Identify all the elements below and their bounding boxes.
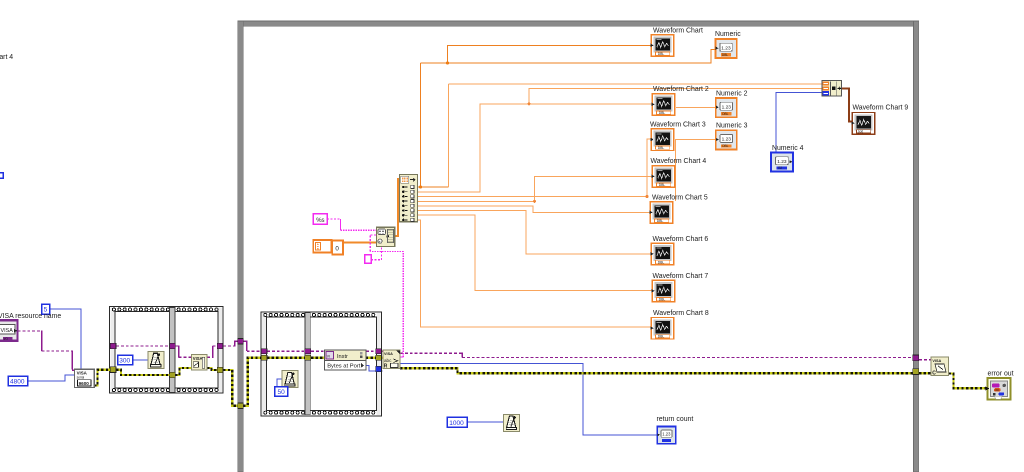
Index Array function node (8 outputs) [399, 175, 417, 222]
wire: error cluster from sequence 1 into while loop [223, 370, 238, 406]
Wait (ms) VI bottom (1000 ms) [504, 414, 520, 431]
tunnel: VISA on seq2 divider [305, 349, 311, 354]
svg-text:Numeric: Numeric [715, 31, 741, 38]
error out indicator terminal [986, 378, 1011, 400]
Wait (ms) VI inside seq1 frame 1 [148, 352, 164, 369]
wire: error cluster (VISA Close to error out) [949, 374, 987, 389]
indicator: Numeric 3 [716, 123, 748, 150]
constant 50 [275, 387, 288, 397]
tunnel: VISA on seq2 left border [261, 349, 267, 354]
flat sequence structure 1 (init/wait + VISA clear frames) [110, 306, 224, 393]
tunnel: error on seq2 right border [376, 355, 382, 360]
array constant shell (index) [313, 240, 331, 253]
wire: blue (constant 4800 baud to VISA Configure Serial Port) [28, 375, 75, 381]
indicator: Waveform Chart [651, 28, 703, 57]
wire: error cluster through sequence 1 frame 1 [116, 370, 170, 375]
indicator: Waveform Chart 7 [652, 273, 709, 302]
property node Instr / Bytes at Port [325, 350, 366, 370]
constant 5 (data bits) [42, 304, 50, 314]
indicator: Numeric 2 [716, 91, 748, 118]
Bundle function node [822, 81, 842, 97]
wire: blue (Bytes at Port property to VISA Read byte count) [365, 366, 383, 372]
svg-text:0: 0 [335, 245, 339, 252]
svg-text:1000: 1000 [449, 420, 464, 427]
indicator: Waveform Chart 3 [650, 121, 706, 150]
svg-text:abc: abc [384, 358, 392, 363]
svg-text:300: 300 [119, 358, 130, 365]
control: Numeric 4 (I32) [771, 145, 803, 171]
wire: orange DBL net 3 (out3 to Chart 3, Numeric 3) [418, 139, 715, 201]
svg-text:Waveform Chart 7: Waveform Chart 7 [653, 273, 709, 280]
svg-text:Waveform Chart 9: Waveform Chart 9 [853, 105, 909, 112]
indicator: return count [657, 416, 694, 444]
tunnel: VISA on seq2 right border [376, 349, 382, 354]
wire: orange DBL net 7 (out7 to Chart 7) [418, 215, 652, 290]
wire: orange DBL net 8 (out8 to Chart 8) [418, 220, 651, 327]
wire: blue (VISA Read return count to indicator) [400, 363, 657, 435]
wire: orange DBL net 4 (out4 to Chart 4) [418, 177, 652, 203]
wire: orange DBL net 6 (out6 to Chart 6) [418, 211, 651, 254]
tunnel: error on while loop left border [238, 403, 243, 409]
svg-text:VISA: VISA [193, 356, 203, 361]
svg-text:Numeric 2: Numeric 2 [716, 91, 748, 98]
VISA resource name control terminal [0, 320, 18, 341]
tunnel: error on while loop right border [913, 369, 919, 375]
svg-text:serial: serial [77, 376, 85, 380]
wire: VISA resource through sequence 1 frames [116, 345, 217, 358]
wire: VISA resource from sequence 1 into while loop [223, 341, 261, 352]
wire: VISA resource through sequence 2 to property node and VISA Read [267, 350, 383, 352]
wire: orange DBL net 1 (Index Array out1 to Waveform Chart & Numeric & Bundle) [418, 46, 822, 189]
indicator: Waveform Chart 4 [651, 158, 707, 187]
svg-text:C: C [932, 370, 936, 376]
indicator: Waveform Chart 9 (cluster, brown) [852, 105, 909, 135]
Wait (ms) VI inside seq2 frame 1 [282, 371, 298, 388]
tunnel: VISA on seq1 divider [170, 343, 176, 349]
tunnel: error on seq2 divider [305, 355, 311, 360]
svg-text:VISA resource name: VISA resource name [0, 313, 61, 320]
svg-text:Bytes at Port: Bytes at Port [327, 364, 361, 370]
wire: pink string (VISA Read buffer to Spreadsheet String To Array) [370, 235, 403, 357]
svg-text:Numeric 3: Numeric 3 [716, 123, 748, 130]
svg-text:Waveform Chart 6: Waveform Chart 6 [653, 236, 709, 243]
svg-text:Waveform Chart 8: Waveform Chart 8 [653, 310, 709, 317]
tunnel: VISA on seq1 left border [110, 343, 116, 349]
wire: blue (constant 5 to VISA Configure Serial Port) [50, 309, 82, 369]
wire: pink string (empty delimiter constant to node) [371, 246, 382, 259]
tunnel: VISA on while loop left border [238, 339, 243, 345]
tunnel: error on seq2 left border [261, 355, 267, 360]
svg-text:9600: 9600 [79, 381, 90, 386]
tunnel: error on seq1 left border [110, 367, 116, 373]
wire: error cluster through sequence 2 [267, 357, 305, 359]
VISA Configure Serial Port VI [75, 369, 95, 387]
svg-text:Waveform Chart 5: Waveform Chart 5 [652, 194, 708, 201]
constant 300 [118, 355, 133, 364]
svg-text:Waveform Chart 4: Waveform Chart 4 [651, 158, 707, 165]
wire: orange DBL net 2 (out2 to Chart 2, Numeric 2, Bundle) [418, 89, 822, 193]
svg-text:s: s [379, 240, 381, 244]
Spreadsheet String To Array function node [376, 227, 394, 246]
svg-text:R: R [384, 364, 388, 370]
VISA Clear VI inside seq1 frame 2 [191, 355, 207, 371]
wire: orange 1D array (array constant to Spreadsheet String To Array) [343, 242, 376, 244]
svg-text:Waveform Chart 2: Waveform Chart 2 [653, 86, 709, 93]
wire: error cluster through sequence 1 frame 2 (VISA Clear) [175, 368, 191, 375]
tunnel: VISA on while loop right border [913, 355, 919, 361]
svg-text:error out: error out [988, 371, 1014, 378]
svg-text:Instr: Instr [337, 354, 348, 360]
svg-text:Waveform Chart 3: Waveform Chart 3 [650, 121, 706, 128]
wire: blue (constant 300 to Wait ms) [133, 359, 148, 361]
indicator: Waveform Chart 8 [651, 310, 709, 339]
svg-text:return count: return count [657, 416, 694, 423]
svg-text:%s: %s [316, 218, 324, 224]
string constant %s [313, 214, 327, 224]
svg-text:VISA: VISA [1, 328, 14, 334]
wire: error cluster (VISA Configure to sequence 1) [94, 370, 110, 386]
indicator: Waveform Chart 6 [651, 236, 709, 265]
wire: blue (constant 1000 to Wait ms) [467, 421, 503, 423]
svg-text:VI: VI [327, 354, 330, 358]
svg-text:00: 00 [995, 388, 999, 392]
indicator: Waveform Chart 5 [650, 194, 708, 223]
svg-text:Waveform Chart: Waveform Chart [653, 28, 703, 35]
svg-text:hart 4: hart 4 [0, 54, 13, 61]
wire: blue (constant 50 to Wait ms) [277, 379, 282, 387]
tunnel: error on seq1 right border [217, 367, 223, 372]
wire: blue I32 (Numeric 4 to Bundle) [776, 93, 822, 153]
VISA Read VI [383, 350, 400, 369]
constant 4800 (baud rate) [8, 376, 28, 386]
tunnel: VISA on seq1 right border [217, 343, 223, 349]
wire: orange DBL net 5 (out5 to Chart 5) [418, 206, 650, 213]
while loop border [238, 21, 919, 472]
VISA Close VI [931, 357, 948, 376]
wire: VISA resource (VISA Read to VISA Close across loop) [400, 353, 931, 360]
flat sequence structure 2 (wait + Bytes at Port frames) [261, 312, 382, 416]
svg-text:I/O: I/O [4, 337, 9, 341]
tunnel: error on seq1 divider [170, 372, 176, 377]
indicator: Waveform Chart 2 [652, 86, 709, 115]
wire: orange 1D array (Spreadsheet String To Array to Index Array) [395, 179, 400, 236]
partially visible blue constant at left edge [0, 173, 3, 179]
wire: error cluster (VISA Read to VISA Close across loop) [400, 368, 913, 373]
svg-text:50: 50 [278, 389, 286, 396]
svg-text:VISA: VISA [932, 359, 941, 363]
wire: VISA resource (control to VISA Configure Serial Port) [18, 330, 76, 370]
svg-text:Numeric 4: Numeric 4 [772, 145, 804, 152]
svg-text:4800: 4800 [10, 379, 25, 386]
svg-text:VISA: VISA [384, 352, 393, 356]
tunnel: blue byte count on seq2 right border [376, 366, 382, 371]
wire: pink string (%s format constant to Spreadsheet String To Array) [327, 219, 376, 230]
array constant element 0 (DBL) [332, 241, 343, 255]
svg-text:[xx]: [xx] [858, 130, 863, 134]
indicator: Numeric [715, 31, 741, 58]
constant 1000 [447, 417, 467, 427]
string constant (empty delimiter) [365, 255, 371, 264]
wire: brown cluster (Bundle to Waveform Chart 9) [842, 88, 853, 121]
